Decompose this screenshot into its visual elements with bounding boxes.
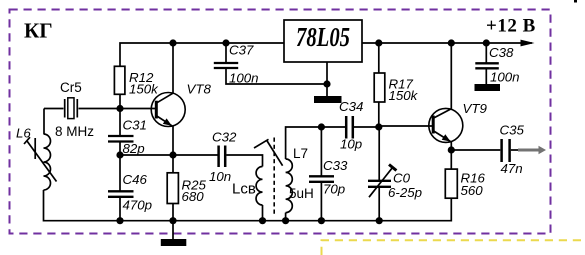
wire crystal row [44,108,64,110]
wire bottom bus [120,198,451,221]
node L7 bottom [282,217,289,224]
svg-text:C34: C34 [339,99,363,114]
arrow output gray [518,146,546,154]
resistor R17 [374,73,385,102]
wire R17 bottom [378,102,380,127]
capacitor C31 [108,109,134,156]
svg-text:C32: C32 [212,130,237,145]
wire R17 top [378,43,380,73]
node crystal/R12/base [116,105,123,112]
transformer core dashed [273,138,275,217]
svg-text:150k: 150k [389,88,419,103]
svg-text:C46: C46 [123,172,148,187]
wire Lsv bottom [262,205,264,221]
wire R25 top [172,155,174,173]
wire top bus left [120,43,284,66]
transistor VT9 [429,108,463,142]
wire L7 top [286,127,322,159]
svg-text:10n: 10n [209,169,231,184]
node C38 top [483,39,490,46]
wire ground stub [172,221,174,239]
node C37 top [222,39,229,46]
svg-text:680: 680 [182,189,205,204]
wire R12 bottom [119,94,121,108]
svg-text:70p: 70p [323,181,345,196]
wire VT8 collector [172,43,174,93]
node VT9 collector [448,39,455,46]
ground bar C38 [475,84,501,91]
svg-text:C38: C38 [489,45,514,60]
svg-text:C31: C31 [123,118,147,133]
wire left drop to L6 [43,109,45,135]
svg-text:100n: 100n [490,70,520,85]
regulator U1 78L05 box [284,20,362,62]
wire emitter to C35 [451,149,500,151]
crystal Cr5 [65,98,78,119]
svg-text:150k: 150k [129,81,159,96]
stray mark top right [574,0,577,3]
svg-text:6-25p: 6-25p [388,185,422,200]
node Lsv bottom [259,217,266,224]
node C33 top [318,123,325,130]
svg-text:L6: L6 [16,125,31,140]
resistor R16 [445,169,457,198]
wire R16 top [450,150,452,169]
wire to VT9 base [379,125,433,127]
node C46 bottom [116,217,123,224]
arrow +12V [521,40,535,47]
transistor VT8 [151,93,185,127]
svg-text:100n: 100n [229,71,259,86]
svg-text:VT9: VT9 [463,101,488,116]
wire C32 to Lsv [227,155,263,167]
svg-text:47n: 47n [501,161,523,176]
svg-text:8 MHz: 8 MHz [55,124,94,139]
node VT9 emitter [448,146,455,153]
capacitor C46 [108,155,134,221]
node C33 bottom [318,217,325,224]
wire VT9 collector [450,43,452,109]
svg-text:Lсв: Lсв [232,181,256,198]
svg-text:C35: C35 [500,123,525,138]
wire 78L05 gnd pin [326,62,328,96]
resistor R25 [167,173,178,204]
svg-text:5uH: 5uH [289,186,314,201]
svg-text:10p: 10p [340,137,362,152]
resistor R12 [114,66,125,94]
capacitor C37 [214,43,327,84]
svg-text:+12 В: +12 В [486,16,536,37]
inductor Lsv primary [256,167,262,206]
node R17 top [375,39,382,46]
capacitor C32 [219,146,226,168]
capacitor C33 [309,127,334,221]
node VT8 collector [169,39,176,46]
ground bar 78L05 [314,96,342,103]
wire emitter row [120,154,218,156]
transformer adjuster arrow [267,141,283,166]
svg-text:C37: C37 [229,43,254,58]
svg-text:560: 560 [461,183,484,198]
yellow dashed frame corner [322,240,585,255]
node emitter row [169,151,176,158]
wire top bus right [362,42,532,44]
wire to C34 [321,126,345,128]
wire VT9 emitter [450,141,452,150]
svg-text:78L05: 78L05 [296,22,350,52]
inductor L7 secondary [286,159,293,213]
capacitor C34 [346,116,353,139]
wire crystal to base junction [79,108,156,110]
svg-text:470p: 470p [123,198,153,213]
svg-text:C0: C0 [393,171,411,186]
L6 core line [34,138,36,159]
node C31/C46 [116,151,123,158]
wire C35 out [511,149,521,151]
wire R25 bottom [172,204,174,221]
ground bar main [161,239,187,246]
capacitor C38 [475,43,499,84]
node R25 bottom [169,217,176,224]
svg-text:82p: 82p [123,141,145,156]
svg-text:Cr5: Cr5 [60,80,82,95]
L6 adjuster arrow [27,141,57,182]
capacitor C35 [502,139,510,162]
node C0 bottom [376,217,383,224]
node C0 top [375,123,382,130]
node C37 gnd [323,80,330,87]
wire VT8 emitter [172,126,174,155]
wire C34 right [354,126,379,128]
wire L7 bottom [285,213,287,221]
svg-text:VT8: VT8 [187,82,212,97]
svg-text:C33: C33 [323,158,348,173]
svg-text:L7: L7 [293,146,308,161]
wire L6 bottom [44,190,121,221]
inductor L6 [44,134,51,190]
svg-text:КГ: КГ [24,19,53,43]
capacitor C0 variable [368,127,396,221]
